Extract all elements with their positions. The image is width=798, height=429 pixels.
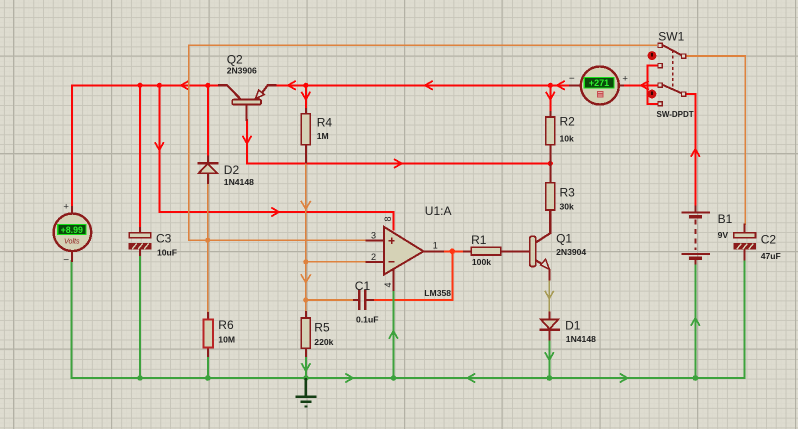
wire: voltmeter ground	[71, 261, 73, 378]
node: C1 branch junction	[303, 297, 308, 302]
svg-text:Q1: Q1	[556, 232, 572, 246]
svg-text:SW-DPDT: SW-DPDT	[657, 110, 694, 119]
svg-text:+: +	[622, 73, 628, 84]
svg-text:C1: C1	[355, 279, 371, 293]
wire: bus arrow right 1	[346, 374, 353, 382]
wire: SW1 throw A feedback (orange)	[189, 45, 656, 240]
wire: SW1 pole B to battery positive	[686, 94, 696, 207]
wire: battery wire arrow up	[691, 149, 699, 156]
battery B1 (9V)	[681, 206, 710, 265]
wire: C2 ground	[744, 260, 746, 378]
svg-text:R6: R6	[218, 318, 234, 332]
node: rail junction at D2	[205, 83, 210, 88]
svg-text:10M: 10M	[218, 334, 235, 344]
svg-text:D2: D2	[224, 163, 240, 177]
wire: D2 cathode branch	[207, 85, 209, 156]
resistor R3 (30k)	[546, 164, 555, 234]
wire: R6 ground	[207, 356, 209, 378]
svg-text:+: +	[63, 202, 69, 213]
wire: C3 branch	[139, 85, 141, 227]
diode D2 (1N4148)	[197, 156, 218, 185]
svg-text:SW1: SW1	[658, 29, 684, 43]
svg-text:+271: +271	[589, 78, 609, 88]
wire: op-amp pin 2 branch (orange)	[306, 261, 366, 263]
wire: R4 top branch	[305, 85, 307, 109]
svg-text:Volts: Volts	[64, 236, 80, 245]
svg-text:R5: R5	[314, 321, 330, 335]
node: rail junction at C3	[137, 83, 142, 88]
svg-text:220k: 220k	[314, 337, 333, 347]
svg-text:9V: 9V	[718, 230, 729, 240]
wire: R5 ground arrow	[302, 364, 310, 371]
svg-text:−: −	[63, 255, 69, 266]
wire: battery negative ground	[694, 264, 696, 378]
svg-text:3: 3	[371, 231, 376, 241]
wire: emitter rail arrow 1	[288, 81, 295, 89]
diode D1 (1N4148)	[539, 312, 560, 341]
svg-text:C3: C3	[156, 232, 172, 246]
wire: left +9V rail from voltmeter to Q2 collector	[72, 85, 218, 213]
svg-text:D1: D1	[565, 318, 581, 332]
wire: R5 ground	[305, 356, 307, 378]
wire: Q2 base to R2/R3 divider	[247, 120, 548, 164]
svg-text:R3: R3	[560, 185, 576, 199]
wire: ammeter to SW1 pole B	[624, 84, 658, 86]
resistor R2 (10k)	[546, 111, 555, 164]
svg-text:1N4148: 1N4148	[566, 334, 596, 344]
capacitor C3 (10uF polarized)	[129, 227, 151, 256]
wire: Q2 emitter rail to ammeter	[277, 84, 582, 86]
svg-text:4: 4	[383, 282, 393, 287]
op-amp U1:A (LM358)	[366, 227, 445, 291]
svg-text:1N4148: 1N4148	[224, 177, 254, 187]
svg-text:R1: R1	[471, 233, 487, 247]
wire: divider wire arrow down	[243, 137, 251, 144]
wire: ground bus	[72, 377, 745, 379]
wire: output feedback to C1	[374, 251, 452, 300]
node: rail junction at supply branch	[157, 83, 162, 88]
node: pin2 junction	[303, 259, 308, 264]
wire: SW1 throw bracket	[648, 66, 658, 104]
svg-text:B1: B1	[718, 212, 733, 226]
svg-text:2N3904: 2N3904	[556, 247, 586, 257]
node: bus junction battery	[693, 375, 699, 381]
node: bus junction C3	[137, 375, 143, 381]
wire: C1 left branch (orange)	[306, 299, 353, 301]
node: orange junction at pin3 wire	[205, 238, 210, 243]
wire: bus arrow left	[468, 374, 475, 382]
svg-text:2N3906: 2N3906	[227, 66, 257, 76]
svg-text:8: 8	[383, 217, 393, 222]
node: R2/R3 divider junction	[548, 161, 553, 166]
wire: R2 branch arrow	[546, 93, 554, 100]
svg-text:100k: 100k	[472, 257, 491, 267]
svg-text:30k: 30k	[560, 201, 575, 211]
node: bus junction pin4	[391, 375, 397, 381]
svg-text:0.1uF: 0.1uF	[356, 314, 378, 324]
wire: R4 branch arrow	[302, 93, 310, 100]
svg-text:R4: R4	[317, 115, 333, 129]
wire: integrator arrow 2	[301, 275, 310, 283]
wire: divider wire arrow right	[395, 160, 402, 168]
wire: emitter rail arrow 3	[557, 81, 564, 89]
ammeter AM1	[569, 67, 629, 105]
node: rail junction at R4	[303, 83, 308, 88]
wire: Q1 emitter to D1 (olive)	[548, 280, 550, 312]
wire: integrator arrow 1	[301, 202, 310, 210]
wire: integrator node vertical (orange)	[305, 164, 307, 313]
wire: pin4 ground arrow up	[389, 331, 397, 338]
wire: bus arrow right 2	[621, 374, 628, 382]
capacitor C2 (47uF polarized)	[734, 224, 756, 261]
wire: SW1 pole A to C2 (orange)	[686, 56, 746, 224]
node: bus junction R6	[205, 375, 211, 381]
wire: D2 anode to R6 (orange)	[207, 183, 209, 313]
svg-text:U1:A: U1:A	[425, 204, 452, 218]
wire: R2 top branch	[549, 85, 551, 112]
wire: battery ground arrow up	[691, 318, 699, 325]
wire: emitter rail arrow 2	[425, 81, 432, 89]
wire: op-amp output to R1	[444, 250, 463, 252]
svg-text:1M: 1M	[317, 131, 329, 141]
node: bus junction D1	[547, 375, 553, 381]
wire: op-amp V- pin4 ground	[392, 291, 394, 378]
wire: D1 ground arrow	[545, 353, 553, 360]
capacitor C1 (0.1uF)	[353, 290, 374, 311]
svg-text:−: −	[569, 73, 575, 84]
transistor Q2 (PNP 2N3906)	[218, 85, 277, 121]
wire: supply branch arrow down	[155, 143, 163, 150]
svg-text:Q2: Q2	[227, 52, 243, 66]
resistor R6 (10M)	[203, 312, 213, 357]
node: bus junction R5/ground	[303, 375, 309, 381]
wire: op-amp V+ supply branch	[159, 85, 393, 229]
switch SW1 (SW-DPDT)	[648, 43, 686, 106]
wire: D1 cathode ground	[548, 340, 550, 378]
svg-text:R2: R2	[560, 115, 576, 129]
svg-text:10k: 10k	[560, 134, 575, 144]
resistor R4 (1M)	[301, 108, 310, 164]
wire: olive arrow down	[545, 292, 553, 299]
ground symbol	[295, 378, 316, 406]
svg-text:47uF: 47uF	[761, 251, 781, 261]
node: op-amp output junction	[450, 249, 456, 255]
wire: supply branch arrow right	[272, 208, 279, 216]
wire: meter-switch arrow	[641, 81, 648, 89]
svg-text:LM358: LM358	[424, 288, 451, 298]
wire: rail arrow left	[181, 81, 188, 89]
transistor Q1 (NPN 2N3904)	[530, 210, 550, 281]
svg-text:C2: C2	[761, 233, 777, 247]
wire: C3 ground	[139, 256, 141, 379]
voltmeter VM1	[54, 202, 92, 266]
svg-text:+8.99: +8.99	[61, 225, 83, 235]
svg-text:1: 1	[433, 241, 438, 251]
svg-text:10uF: 10uF	[157, 247, 177, 257]
resistor R1 (100k)	[463, 247, 530, 255]
node: rail junction at R2	[548, 83, 553, 88]
resistor R5 (220k)	[301, 311, 310, 357]
svg-text:2: 2	[371, 252, 376, 262]
